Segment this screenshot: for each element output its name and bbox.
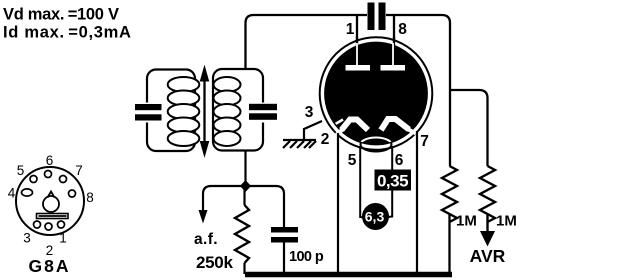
- inductor L2 (secondary coil): [214, 77, 241, 146]
- cathode chevron 1: [342, 120, 369, 131]
- wire: pin 8 lead: [393, 15, 395, 48]
- svg-text:5: 5: [348, 152, 357, 169]
- socket pin 6 hole: [45, 171, 52, 178]
- ground symbol: [283, 140, 316, 148]
- capacitor C1 plates: [135, 104, 162, 110]
- svg-text:Id max.=0,3mA: Id max.=0,3mA: [3, 24, 132, 42]
- transformer primary frame: [147, 70, 195, 152]
- wire: junction to a.f. branch: [203, 186, 246, 213]
- capacitor C2 plates: [249, 104, 277, 110]
- socket pin 2 hole: [45, 223, 52, 230]
- svg-text:0,35: 0,35: [377, 172, 408, 191]
- wire: junction to 100p branch: [246, 186, 285, 227]
- wire: pin 1 lead: [356, 15, 358, 48]
- svg-text:3: 3: [305, 104, 314, 121]
- ground rail: [245, 272, 452, 278]
- heater loop right lead (pin 6): [388, 146, 392, 217]
- svg-text:6: 6: [46, 153, 54, 168]
- svg-text:6: 6: [395, 152, 404, 169]
- socket pin 1 hole: [58, 221, 65, 228]
- svg-text:7: 7: [420, 133, 429, 150]
- wire: pin 2 (cathode) to ground rail: [337, 133, 339, 274]
- pin 3 white stub inside disc: [326, 120, 343, 130]
- heater current box 0,35: [375, 170, 412, 191]
- svg-text:1M: 1M: [496, 213, 517, 230]
- inductor L1 (primary coil): [168, 77, 200, 146]
- socket pin 5 hole: [30, 176, 37, 183]
- svg-text:8: 8: [86, 190, 94, 205]
- svg-text:3: 3: [23, 231, 31, 246]
- svg-text:7: 7: [75, 163, 83, 178]
- junction node: [240, 180, 251, 192]
- capacitor C1 gap: [141, 103, 153, 123]
- svg-text:1: 1: [346, 21, 355, 38]
- svg-text:6,3: 6,3: [365, 209, 385, 225]
- anode 2 (white lead + plate): [392, 43, 394, 66]
- tube inner disc: [324, 42, 428, 146]
- AVR arrow: [486, 214, 488, 232]
- socket pin 4 hole: [22, 189, 33, 196]
- socket pin 8 hole: [69, 190, 76, 197]
- transformer secondary frame: [213, 69, 263, 151]
- heater voltage circle 6,3: [362, 203, 389, 230]
- socket locating bar: [37, 214, 69, 219]
- svg-text:4: 4: [8, 186, 16, 201]
- wire: R1 to rail: [448, 214, 450, 274]
- wire: top rail right segment to 1M dropper: [386, 15, 450, 166]
- cathode chevron 2: [381, 119, 409, 130]
- svg-text:100 p: 100 p: [289, 249, 324, 265]
- heater loop left lead (pin 5): [360, 146, 364, 218]
- anode 1 (white lead + plate): [356, 43, 358, 66]
- capacitor C4 100p plates: [271, 227, 298, 233]
- tube EB91 envelope: [320, 37, 433, 150]
- coupling arrow (variable coupling): [200, 67, 208, 157]
- ground wire from pin 3: [304, 121, 322, 140]
- wire: pin 7 (cathode) to ground rail: [416, 131, 418, 274]
- heater ellipse at tube base: [361, 138, 392, 152]
- capacitor C2 gap: [257, 103, 269, 123]
- wire: pin1 lead crossing ring: [356, 37, 358, 45]
- capacitor C3 (top coupling cap): [368, 3, 375, 31]
- socket pin 7 hole: [60, 176, 67, 183]
- svg-text:2: 2: [321, 131, 330, 148]
- resistor R1 1M (to ground): [442, 166, 457, 222]
- socket outline: [16, 167, 84, 235]
- socket G8A: [16, 167, 84, 235]
- svg-text:5: 5: [17, 163, 25, 178]
- wire: branch to AVR resistor: [450, 90, 488, 166]
- svg-text:1: 1: [59, 231, 67, 246]
- socket center key: [43, 196, 59, 212]
- wire: 100p to rail: [283, 243, 285, 275]
- wire: secondary bottom to junction: [244, 151, 246, 187]
- svg-text:8: 8: [398, 21, 407, 38]
- svg-text:Vd max.=100 V: Vd max.=100 V: [3, 6, 119, 24]
- svg-text:1M: 1M: [456, 213, 477, 230]
- resistor R3 250k: [235, 205, 249, 263]
- a.f. arrow: [199, 210, 208, 224]
- socket pin 3 hole: [34, 221, 41, 228]
- resistor R2 1M (to AVR): [480, 166, 495, 222]
- svg-text:a.f.: a.f.: [194, 231, 218, 248]
- svg-text:AVR: AVR: [470, 246, 506, 266]
- svg-text:250k: 250k: [196, 253, 233, 272]
- wire: secondary top to top rail: [246, 15, 368, 70]
- svg-text:G8A: G8A: [29, 256, 71, 276]
- wire: junction down to 250k: [243, 186, 245, 205]
